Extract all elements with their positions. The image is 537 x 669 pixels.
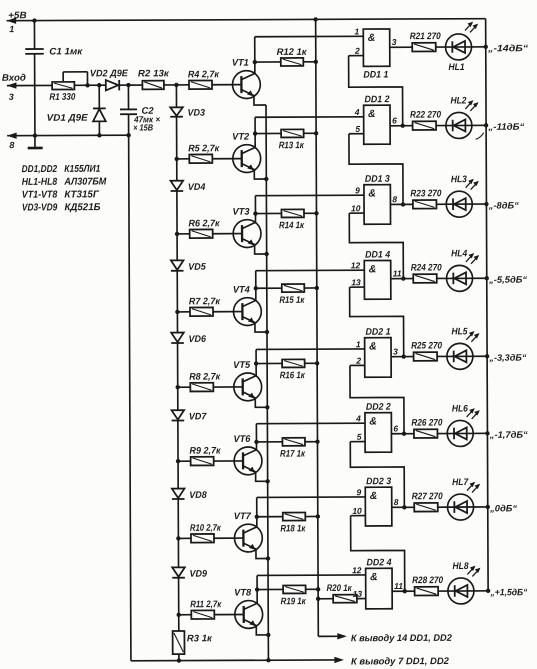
resistor R7 2,7к (base)	[177, 296, 242, 316]
pin 11 (output)	[391, 268, 414, 280]
diode VD6 КД521Б	[171, 312, 207, 387]
svg-text:DD1 2: DD1 2	[364, 94, 390, 105]
svg-text:VD2 Д9Е: VD2 Д9Е	[90, 68, 129, 79]
svg-text:VD8: VD8	[189, 490, 207, 501]
svg-text:R23 270: R23 270	[410, 188, 442, 199]
svg-text:R18 1к: R18 1к	[280, 523, 306, 534]
svg-text:R10 2,7к: R10 2,7к	[190, 523, 222, 534]
resistor R6 2,7к (base)	[177, 218, 242, 238]
wire gate DD2 2 pin 5 to gate DD2 3 output	[350, 441, 404, 507]
node divider top	[174, 83, 178, 87]
pin 10 (input)	[351, 506, 366, 516]
pin 9 (input)	[355, 185, 360, 195]
resistor R22 270	[410, 110, 446, 130]
resistor R12 1к (collector load)	[255, 47, 318, 66]
resistor R19 1к (collector load)	[257, 585, 320, 607]
svg-text:R22 270: R22 270	[410, 110, 442, 121]
transistor VT2 КТ315Г	[232, 132, 261, 173]
pin 5 (input)	[350, 432, 365, 442]
resistor R2 13к	[138, 68, 177, 89]
svg-text:VD6: VD6	[188, 334, 206, 345]
node common rail (pin 8)	[7, 132, 131, 150]
wire LED HL5 to +5V rail / node „-3,3дБ“	[473, 353, 527, 363]
svg-text:VT1-VT8: VT1-VT8	[22, 190, 58, 201]
svg-text:&: &	[368, 32, 376, 44]
capacitor C1	[25, 20, 84, 135]
svg-text:R11 2,7к: R11 2,7к	[190, 599, 222, 610]
svg-text:„-1,7дБ“: „-1,7дБ“	[489, 430, 528, 440]
svg-text:VT6: VT6	[233, 434, 251, 445]
LED HL7 АЛ307БМ	[447, 477, 480, 520]
svg-text:5: 5	[355, 124, 360, 134]
svg-text:1: 1	[9, 24, 14, 34]
svg-text:VT4: VT4	[233, 285, 251, 296]
node input Вход (pin 3)	[2, 73, 52, 102]
pin 4 (input)	[354, 107, 360, 117]
svg-text:DD1 1: DD1 1	[363, 69, 388, 80]
pin 6 (output)	[390, 115, 413, 127]
wire collector VT4 to gate input	[254, 270, 365, 300]
svg-text:1: 1	[354, 26, 359, 36]
svg-text:VT3: VT3	[232, 207, 250, 218]
svg-text:13: 13	[351, 277, 361, 287]
op-amp U6: logic gate DD2 2	[365, 402, 392, 453]
svg-text:R4 2,7к: R4 2,7к	[188, 69, 220, 80]
diode VD2 Д9Е	[90, 68, 143, 90]
resistor R21 270	[410, 31, 446, 51]
wire +5V bus to pin 14	[316, 19, 453, 645]
resistor R28 270	[412, 575, 448, 595]
wire left ground bus down	[129, 135, 131, 661]
svg-text:R27 270: R27 270	[412, 491, 444, 502]
wire right +5V rail to LED anodes	[486, 19, 488, 591]
svg-text:HL8: HL8	[452, 561, 469, 572]
svg-text:× 15В: × 15В	[133, 122, 154, 132]
svg-text:DD2 3: DD2 3	[366, 476, 392, 487]
svg-text:R14 1к: R14 1к	[279, 220, 305, 231]
svg-text:&: &	[369, 416, 377, 428]
svg-text:HL5: HL5	[451, 326, 468, 337]
svg-text:1: 1	[356, 339, 361, 349]
svg-text:„-11дБ“: „-11дБ“	[487, 122, 525, 132]
resistor R24 270	[411, 262, 447, 282]
pin 3 (output)	[391, 346, 414, 358]
svg-text:2: 2	[355, 356, 361, 366]
node divider tap 3	[175, 232, 179, 236]
svg-text:+5В: +5В	[8, 10, 27, 21]
svg-text:8: 8	[392, 194, 397, 204]
svg-text:R21 270: R21 270	[410, 31, 442, 42]
svg-text:R2 13к: R2 13к	[138, 68, 170, 79]
wire LED HL2 to +5V rail / node „-11дБ“	[472, 122, 525, 140]
svg-text:R12 1к: R12 1к	[277, 47, 308, 58]
svg-text:8: 8	[394, 497, 399, 507]
svg-text:R16 1к: R16 1к	[280, 370, 306, 381]
svg-text:R9 2,7к: R9 2,7к	[189, 446, 221, 457]
svg-text:HL7: HL7	[452, 477, 469, 488]
svg-text:HL2: HL2	[450, 95, 467, 106]
resistor R5 2,7к (base)	[177, 143, 242, 163]
svg-text:3: 3	[9, 92, 14, 102]
wire collector VT8 to gate input	[255, 575, 366, 603]
op-amp U1: logic gate DD1 1	[363, 29, 390, 81]
op-amp U3: logic gate DD1 3	[364, 174, 391, 225]
diode VD4 КД521Б	[170, 159, 206, 234]
resistor R13 1к (collector load)	[255, 129, 318, 151]
wire gate DD1 3 pin 10 to gate DD1 4 output	[349, 213, 403, 279]
svg-text:HL6: HL6	[452, 403, 469, 414]
svg-text:R28 270: R28 270	[412, 575, 444, 586]
resistor R18 1к (collector load)	[257, 512, 320, 534]
transistor VT3 КТ315Г	[232, 207, 261, 248]
resistor R17 1к (collector load)	[256, 438, 319, 460]
svg-text:К выводу 7 DD1, DD2: К выводу 7 DD1, DD2	[351, 656, 450, 667]
LED HL8 АЛ307БМ	[448, 561, 481, 604]
svg-text:VD5: VD5	[188, 262, 206, 273]
pin 2 (input)	[350, 356, 365, 366]
svg-text:HL1-HL8: HL1-HL8	[22, 177, 58, 188]
svg-text:9: 9	[355, 185, 360, 195]
LED HL3 АЛ307БМ	[446, 174, 479, 217]
svg-text:10: 10	[351, 203, 361, 213]
svg-text:10: 10	[352, 506, 362, 516]
resistor R11 2,7к (base)	[179, 599, 244, 619]
svg-text:12: 12	[351, 260, 361, 270]
svg-text:8: 8	[9, 140, 14, 150]
svg-text:DD1,DD2: DD1,DD2	[22, 164, 58, 175]
svg-text:К выводу 14 DD1, DD2: К выводу 14 DD1, DD2	[351, 633, 453, 644]
svg-text:R17 1к: R17 1к	[280, 449, 306, 460]
wire emitter VT5 to common bus	[255, 398, 269, 410]
wire collector VT2 to gate input	[253, 117, 364, 148]
pin 1 (input)	[356, 339, 361, 349]
pin 4 (input)	[355, 413, 361, 423]
svg-text:VT1: VT1	[232, 58, 249, 69]
pin 8 (output)	[392, 497, 415, 509]
svg-text:„+1,5дБ“: „+1,5дБ“	[489, 587, 527, 597]
svg-text:„-5,5дБ“: „-5,5дБ“	[488, 275, 527, 285]
wire bottom common rail to pin 7	[131, 656, 450, 668]
pin 9 (input)	[356, 487, 361, 497]
resistor R25 270	[411, 340, 447, 360]
svg-text:6: 6	[392, 116, 397, 126]
wire emitter VT3 to common bus	[255, 244, 269, 256]
svg-text:VT8: VT8	[234, 587, 252, 598]
svg-text:&: &	[368, 188, 376, 200]
svg-text:HL3: HL3	[451, 174, 468, 185]
svg-text:VT5: VT5	[233, 360, 251, 371]
svg-text:DD2 4: DD2 4	[366, 557, 392, 568]
pin 2 (input)	[349, 46, 364, 56]
parts list text block	[22, 164, 107, 214]
svg-text:VD1 Д9Е: VD1 Д9Е	[47, 113, 89, 124]
wire gate DD1 4 pin 13 to gate DD2 1 output	[350, 287, 404, 357]
resistor R27 270	[412, 491, 448, 511]
pin 10 (input)	[349, 203, 364, 213]
svg-text:„-8дБ“: „-8дБ“	[488, 200, 519, 210]
wire LED HL1 to +5V rail / node „-14дБ“	[472, 43, 529, 53]
diode VD8 КД521Б	[172, 461, 208, 538]
LED HL5 АЛ307БМ	[447, 326, 480, 369]
svg-text:VD3: VD3	[188, 108, 206, 119]
wire collector VT5 to gate input	[254, 349, 365, 376]
node divider tap 4	[175, 310, 179, 314]
svg-text:„-3,3дБ“: „-3,3дБ“	[488, 353, 526, 363]
svg-text:VD7: VD7	[189, 411, 207, 422]
svg-text:DD1 4: DD1 4	[365, 249, 391, 260]
transistor VT6 КТ315Г	[233, 434, 262, 475]
svg-text:6: 6	[393, 424, 398, 434]
wire emitter VT6 to common bus	[256, 472, 270, 484]
svg-text:АЛ307БМ: АЛ307БМ	[63, 177, 107, 188]
svg-text:&: &	[370, 490, 378, 502]
LED HL1 АЛ307БМ	[445, 22, 478, 73]
wire collector VT1 to gate input	[253, 36, 364, 73]
svg-text:R19 1к: R19 1к	[281, 596, 307, 607]
wire collector VT6 to gate input	[254, 423, 365, 449]
LED HL2 АЛ307БМ	[446, 95, 479, 138]
svg-text:2: 2	[354, 46, 360, 56]
svg-text:&: &	[368, 108, 376, 120]
wire emitter VT1 to common bus	[254, 96, 268, 661]
svg-text:DD2 1: DD2 1	[365, 327, 390, 338]
svg-text:К155ЛИ1: К155ЛИ1	[64, 164, 100, 175]
svg-text:R1 330: R1 330	[49, 92, 76, 103]
svg-text:VD4: VD4	[188, 182, 206, 193]
transistor VT5 КТ315Г	[233, 360, 262, 401]
resistor R14 1к (collector load)	[255, 209, 318, 231]
resistor R3 1к	[173, 615, 214, 663]
diode VD3 КД521Б	[170, 85, 206, 159]
wire emitter VT8 to common bus	[256, 625, 270, 637]
pin 13 (input)	[353, 589, 363, 599]
pin 3 (output)	[390, 37, 413, 47]
op-amp U7: logic gate DD2 3	[365, 476, 392, 526]
diode VD7 КД521Б	[171, 387, 207, 461]
svg-text:R3 1к: R3 1к	[187, 633, 213, 644]
svg-text:11: 11	[393, 268, 402, 278]
wire collector VT3 to gate input	[253, 195, 364, 222]
op-amp U8: logic gate DD2 4	[366, 557, 393, 609]
resistor R20 1к	[316, 583, 366, 603]
pin 5 (input)	[349, 124, 364, 134]
op-amp U4: logic gate DD1 4	[364, 249, 391, 299]
wire emitter VT7 to common bus	[256, 549, 270, 561]
wire gate DD2 3 pin 10 to gate DD2 4 output	[351, 515, 405, 591]
transistor VT1 КТ315Г	[232, 58, 261, 99]
svg-text:R15 1к: R15 1к	[279, 295, 305, 306]
diode VD5 КД521Б	[171, 234, 207, 312]
transistor VT7 КТ315Г	[234, 511, 263, 552]
svg-text:3: 3	[393, 346, 398, 356]
resistor R26 270	[411, 418, 447, 438]
wire emitter VT2 to common bus	[254, 169, 268, 181]
svg-text:R13 1к: R13 1к	[279, 140, 305, 151]
resistor R16 1к (collector load)	[256, 359, 319, 381]
op-amp U2: logic gate DD1 2	[364, 94, 391, 144]
node divider tap 7	[176, 536, 180, 540]
wire LED HL6 to +5V rail / node „-1,7дБ“	[473, 430, 528, 440]
svg-text:VD9: VD9	[190, 569, 208, 580]
pin 8 (output)	[390, 194, 413, 206]
pin 11 (output)	[392, 581, 415, 593]
pin 13 (input)	[350, 277, 365, 287]
wire gate DD1 1 pin 2 to gate DD1 2 output	[349, 55, 403, 126]
resistor R9 2,7к (base)	[178, 445, 243, 465]
svg-text:VT7: VT7	[234, 511, 252, 522]
resistor R8 2,7к (base)	[178, 371, 243, 391]
svg-text:HL1: HL1	[449, 62, 465, 73]
svg-text:„0дБ“: „0дБ“	[489, 503, 517, 513]
ground	[28, 133, 43, 148]
resistor R15 1к (collector load)	[256, 284, 319, 306]
svg-text:VT2: VT2	[232, 132, 250, 143]
wire emitter VT4 to common bus	[255, 322, 269, 334]
diode VD1 Д9Е	[47, 83, 106, 138]
svg-text:HL4: HL4	[451, 248, 468, 259]
node divider tap 6	[176, 459, 180, 463]
svg-text:R20 1к: R20 1к	[327, 583, 353, 594]
svg-text:4: 4	[354, 107, 360, 117]
node divider tap 2	[175, 157, 179, 161]
resistor R10 2,7к (base)	[178, 523, 243, 543]
resistor R4 2,7к (base)	[176, 69, 241, 89]
node +5V supply rail (top)	[7, 8, 486, 34]
svg-text:DD1 3: DD1 3	[365, 174, 391, 185]
svg-text:„-14дБ“: „-14дБ“	[487, 43, 529, 53]
svg-text:5: 5	[357, 432, 362, 442]
LED HL4 АЛ307БМ	[446, 248, 479, 291]
svg-text:VD3-VD9: VD3-VD9	[22, 202, 58, 213]
LED HL6 АЛ307БМ	[447, 403, 480, 446]
capacitor C2 47мк 15В	[120, 85, 160, 135]
svg-text:4: 4	[355, 413, 361, 423]
wire LED HL8 to +5V rail / node „+1,5дБ“	[474, 587, 528, 597]
svg-text:R5 2,7к: R5 2,7к	[188, 143, 220, 154]
svg-text:R8 2,7к: R8 2,7к	[189, 372, 221, 383]
node divider tap 5	[176, 385, 180, 389]
pin 12 (input)	[351, 260, 361, 270]
svg-text:R24 270: R24 270	[411, 262, 443, 273]
pin 12 (input)	[352, 565, 362, 575]
wire LED HL4 to +5V rail / node „-5,5дБ“	[473, 275, 528, 285]
resistor R23 270	[410, 188, 446, 208]
svg-text:Вход: Вход	[2, 73, 26, 84]
svg-text:&: &	[369, 263, 377, 275]
resistor R1 330 (trimmer)	[49, 72, 106, 103]
svg-text:11: 11	[394, 581, 403, 591]
wire collector VT7 to gate input	[255, 497, 366, 527]
svg-text:R26 270: R26 270	[411, 418, 443, 429]
svg-text:12: 12	[352, 565, 362, 575]
svg-text:КД521Б: КД521Б	[64, 202, 100, 213]
diode VD9 КД521Б	[172, 538, 208, 615]
op-amp U5: logic gate DD2 1	[365, 327, 392, 378]
svg-text:R25 270: R25 270	[411, 340, 443, 351]
svg-text:DD2 2: DD2 2	[366, 402, 392, 413]
svg-text:3: 3	[392, 37, 397, 47]
svg-text:R7 2,7к: R7 2,7к	[189, 296, 221, 307]
svg-text:&: &	[370, 571, 378, 583]
wire gate DD1 2 pin 5 to gate DD1 3 output	[349, 134, 403, 205]
svg-text:КТ315Г: КТ315Г	[64, 189, 99, 200]
wire gate DD2 1 pin 2 to gate DD2 2 output	[350, 365, 404, 434]
svg-text:9: 9	[356, 487, 361, 497]
pin 6 (output)	[391, 423, 414, 435]
transistor VT8 КТ315Г	[234, 587, 263, 628]
svg-text:&: &	[369, 341, 377, 353]
wire LED HL7 to +5V rail / node „0дБ“	[474, 503, 518, 513]
svg-text:R6 2,7к: R6 2,7к	[188, 218, 220, 229]
node divider tap 8	[177, 613, 181, 617]
transistor VT4 КТ315Г	[233, 285, 262, 326]
pin 1 (input)	[354, 26, 359, 36]
svg-text:C1 1мк: C1 1мк	[49, 46, 83, 57]
wire LED HL3 to +5V rail / node „-8дБ“	[472, 200, 519, 210]
